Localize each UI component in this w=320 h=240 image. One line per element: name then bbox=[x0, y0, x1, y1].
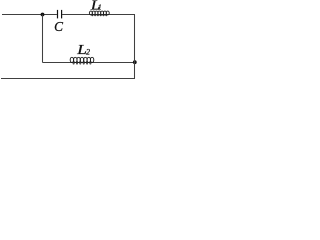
wire bottom bbox=[1, 78, 135, 80]
inductor L2 bbox=[70, 42, 94, 64]
inductor L1 bbox=[89, 0, 109, 16]
wire mid vertical bbox=[42, 15, 44, 63]
capacitor C bbox=[54, 10, 64, 34]
svg-text:1: 1 bbox=[98, 2, 102, 11]
wire top-left segment bbox=[2, 14, 57, 16]
node B junction dot bbox=[133, 60, 137, 64]
svg-text:C: C bbox=[54, 18, 64, 33]
svg-text:2: 2 bbox=[86, 48, 90, 57]
node A junction dot bbox=[41, 13, 45, 17]
wire top-right segment bbox=[62, 14, 135, 16]
wire L2 branch bbox=[43, 62, 135, 64]
wire right vertical bbox=[134, 15, 136, 79]
